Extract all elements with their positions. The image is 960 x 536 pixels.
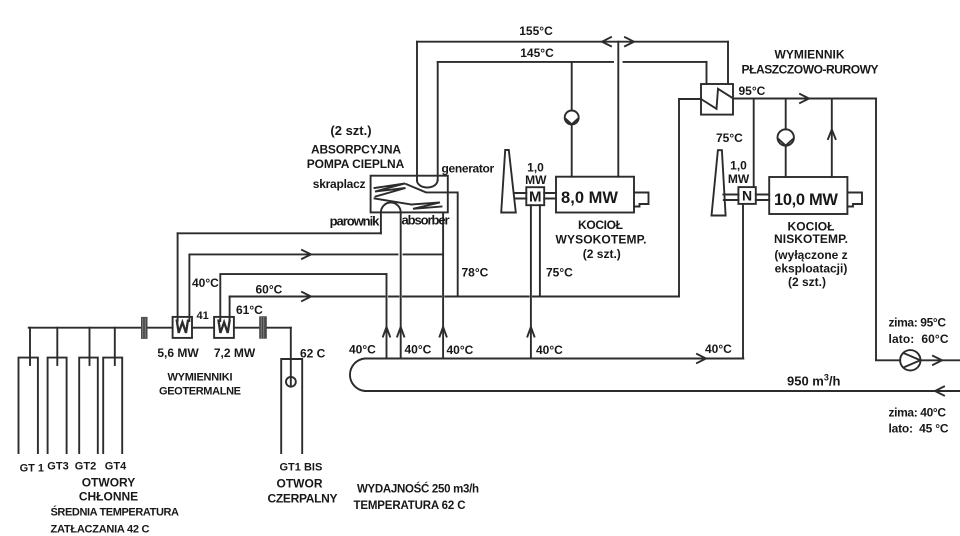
svg-text:OTWOR: OTWOR — [277, 477, 323, 491]
wire 155C right drop to exchanger — [727, 42, 729, 84]
flange F2 — [259, 316, 267, 338]
svg-text:GT1 BIS: GT1 BIS — [280, 462, 323, 474]
wire 40C into exchanger 7,2MW — [220, 274, 386, 321]
arrow up — [527, 327, 534, 337]
wire 95C line — [733, 98, 876, 100]
wire well drop GT4 — [114, 328, 116, 365]
svg-text:(2 szt.): (2 szt.) — [788, 275, 826, 289]
svg-text:zima: 40°C: zima: 40°C — [889, 406, 947, 420]
boiler 8MW right stub — [634, 193, 649, 207]
wire 145C right drop to exchanger — [706, 62, 708, 84]
svg-text:75°C: 75°C — [716, 131, 743, 145]
svg-text:zima: 95°C: zima: 95°C — [889, 316, 947, 330]
channel lower — [375, 199, 412, 205]
wire 60C header — [230, 296, 679, 298]
svg-text:7,2 MW: 7,2 MW — [214, 346, 256, 360]
svg-text:WYMIENNIK: WYMIENNIK — [775, 48, 845, 62]
chimney boiler 10MW — [712, 150, 726, 215]
svg-text:TEMPERATURA 62 C: TEMPERATURA 62 C — [354, 500, 466, 512]
svg-text:62 C: 62 C — [300, 347, 326, 361]
svg-text:10,0 MW: 10,0 MW — [774, 191, 838, 209]
channel upper — [406, 184, 448, 192]
wire 40C line heat pump to exchanger GT1 — [178, 232, 381, 234]
svg-text:PŁASZCZOWO-RUROWY: PŁASZCZOWO-RUROWY — [742, 63, 879, 77]
svg-text:61°C: 61°C — [236, 303, 263, 317]
wire riser from 40C header — [386, 274, 388, 358]
svg-text:(wyłączone z: (wyłączone z — [774, 248, 847, 262]
wire chimney to M box — [514, 193, 526, 199]
well header line — [29, 327, 291, 329]
wire parownik right leg riser — [400, 212, 402, 358]
wire 95C drop to burner N — [753, 99, 755, 188]
return header 950m3/h — [365, 390, 960, 392]
boiler 8,0 MW box — [556, 177, 634, 213]
chimney boiler 8MW — [501, 150, 516, 213]
svg-text:ABSORPCYJNA: ABSORPCYJNA — [311, 143, 401, 157]
svg-text:GEOTERMALNE: GEOTERMALNE — [159, 386, 241, 398]
svg-text:40°C: 40°C — [349, 343, 376, 357]
wire drop into exchanger 5,6MW — [177, 233, 179, 321]
wire 75C drop from M box to 60C header — [539, 205, 541, 296]
arrow right after pump — [933, 356, 942, 365]
arrow left on return — [935, 387, 944, 396]
wire well drop GT1 — [29, 328, 31, 365]
burner box N — [738, 187, 755, 204]
wire N box to boiler 10MW — [756, 195, 769, 201]
svg-text:75°C: 75°C — [546, 266, 573, 280]
wire exchanger 7,2MW out 61C — [229, 297, 231, 322]
svg-text:950 m3/h: 950 m3/h — [787, 373, 841, 389]
geothermal exchanger 7,2MW — [214, 317, 234, 338]
arrow right on 155C line — [625, 37, 634, 46]
arrow up — [383, 327, 390, 337]
wire absorber riser — [442, 212, 444, 358]
40C supply header top — [365, 358, 743, 360]
boiler 10MW right stub — [847, 193, 862, 207]
pump P3 in well — [286, 377, 296, 387]
svg-text:78°C: 78°C — [462, 266, 489, 280]
svg-text:KOCIOŁ: KOCIOŁ — [578, 218, 623, 232]
well GT3 — [48, 358, 67, 453]
svg-text:OTWORY: OTWORY — [82, 476, 136, 490]
svg-text:NISKOTEMP.: NISKOTEMP. — [774, 232, 848, 246]
wire parownik left leg — [380, 212, 382, 233]
svg-text:CHŁONNE: CHŁONNE — [79, 490, 138, 504]
svg-text:skraplacz: skraplacz — [313, 177, 366, 191]
skraplacz coil — [375, 184, 406, 197]
wire drop to GT1 BIS — [290, 328, 292, 387]
svg-text:40°C: 40°C — [192, 276, 219, 290]
svg-text:MW: MW — [728, 172, 750, 186]
wire drop into exchanger 5,6MW — [188, 254, 190, 321]
svg-text:GT4: GT4 — [105, 461, 127, 473]
wire well drop GT3 — [56, 328, 58, 365]
svg-text:(2 szt.): (2 szt.) — [583, 247, 621, 261]
wire N box drop to 40C header corner — [742, 204, 744, 359]
svg-text:5,6 MW: 5,6 MW — [157, 346, 199, 360]
wire riser boiler 10MW output — [831, 99, 833, 178]
arrow up — [397, 327, 404, 337]
svg-text:ZATŁACZANIA 42 C: ZATŁACZANIA 42 C — [51, 524, 150, 536]
flange F1 — [141, 317, 148, 339]
svg-text:WYDAJNOŚĆ 250 m3/h: WYDAJNOŚĆ 250 m3/h — [357, 483, 479, 496]
svg-text:40°C: 40°C — [447, 343, 474, 357]
svg-text:1,0: 1,0 — [730, 159, 747, 173]
svg-text:MW: MW — [525, 173, 547, 187]
wire exchanger 5,6MW out to absorber — [189, 253, 443, 255]
well GT1 — [19, 358, 38, 453]
wire chimney to N box — [723, 195, 738, 201]
wire 145C line — [438, 61, 707, 63]
svg-text:parownik: parownik — [330, 214, 381, 229]
arrow up — [440, 327, 447, 337]
svg-text:GT2: GT2 — [75, 461, 96, 473]
arrow right on 60C — [302, 292, 311, 301]
svg-text:generator: generator — [442, 162, 495, 176]
pump P1 — [565, 111, 579, 125]
wire M box drop to 40C header — [530, 205, 532, 358]
svg-text:8,0 MW: 8,0 MW — [561, 189, 618, 207]
svg-text:40°C: 40°C — [405, 343, 432, 357]
absorber coil — [412, 203, 442, 209]
svg-text:155°C: 155°C — [519, 24, 553, 38]
boiler 10,0 MW box — [769, 177, 847, 214]
svg-text:145°C: 145°C — [520, 46, 554, 60]
heat exchanger shell-tube box — [701, 84, 733, 115]
wire pump riser to boiler 10MW — [785, 99, 787, 178]
svg-text:41: 41 — [197, 310, 209, 322]
wire 145C left drop to generator — [437, 62, 439, 181]
arrow up on riser — [828, 130, 836, 140]
svg-text:40°C: 40°C — [536, 343, 563, 357]
well GT2 — [79, 358, 98, 453]
wire absorber outlet 78C — [448, 192, 458, 296]
wire 155C riser to boiler 8MW — [617, 42, 619, 177]
geothermal exchanger 5,6MW — [173, 317, 192, 338]
svg-text:60°C: 60°C — [256, 283, 283, 297]
wire pump riser to boiler 8MW — [571, 62, 573, 177]
wire 155C left drop to generator — [416, 42, 418, 181]
arrow right — [302, 250, 311, 259]
arrow right on supply — [697, 354, 706, 363]
svg-text:40°C: 40°C — [705, 342, 732, 356]
well GT4 — [103, 358, 122, 453]
burner box M — [526, 187, 544, 205]
arrow right on 95C line — [800, 94, 809, 103]
header left round end — [350, 359, 365, 392]
wire right supply segment — [876, 359, 960, 361]
wire well drop GT2 — [89, 328, 91, 365]
wire 155C top line — [417, 41, 728, 43]
svg-text:95°C: 95°C — [739, 84, 766, 98]
svg-text:POMPA CIEPLNA: POMPA CIEPLNA — [307, 157, 405, 171]
svg-text:M: M — [529, 189, 542, 206]
wire 60C riser into exchanger — [679, 99, 701, 297]
well GT1 BIS — [281, 359, 302, 453]
pump P2 — [778, 129, 794, 145]
svg-text:N: N — [742, 188, 752, 204]
svg-text:GT 1: GT 1 — [20, 463, 44, 475]
generator U loop — [417, 181, 438, 188]
svg-text:lato: 60°C: lato: 60°C — [889, 332, 949, 346]
svg-text:ŚREDNIA TEMPERATURA: ŚREDNIA TEMPERATURA — [51, 506, 180, 519]
svg-text:eksploatacji): eksploatacji) — [775, 262, 848, 276]
svg-text:(2 szt.): (2 szt.) — [330, 123, 371, 138]
svg-text:WYMIENNIKI: WYMIENNIKI — [168, 372, 233, 384]
wire M box to boiler 8MW — [544, 193, 556, 199]
wire 95C right drop — [875, 99, 877, 361]
svg-text:CZERPALNY: CZERPALNY — [268, 492, 338, 506]
parownik arch — [381, 202, 401, 212]
svg-text:lato: 45 °C: lato: 45 °C — [889, 422, 949, 436]
absorption heat pump box — [371, 176, 448, 213]
svg-text:WYSOKOTEMP.: WYSOKOTEMP. — [556, 233, 647, 247]
svg-text:absorber: absorber — [401, 213, 449, 228]
pump P4 — [900, 350, 920, 370]
arrow left on 155C line — [602, 37, 611, 46]
svg-text:GT3: GT3 — [47, 461, 68, 473]
